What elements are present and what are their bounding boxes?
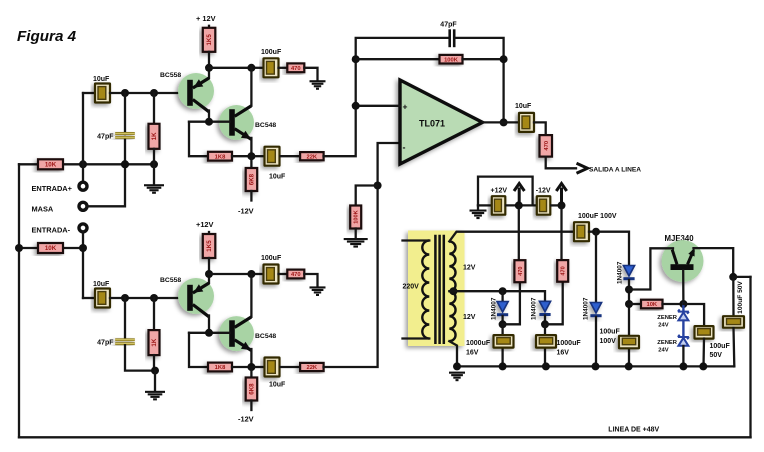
- svg-text:10K: 10K: [45, 245, 57, 252]
- svg-text:-12V: -12V: [238, 207, 254, 216]
- svg-text:MASA: MASA: [32, 204, 54, 213]
- svg-text:-: -: [403, 142, 406, 152]
- svg-text:12V: 12V: [463, 264, 476, 271]
- svg-text:+12V: +12V: [196, 220, 214, 229]
- svg-text:12V: 12V: [463, 314, 476, 321]
- svg-text:16V: 16V: [466, 350, 479, 357]
- svg-text:ZENER: ZENER: [657, 340, 677, 346]
- svg-text:1N4007: 1N4007: [582, 297, 589, 320]
- svg-text:10K: 10K: [45, 162, 57, 169]
- svg-text:TL071: TL071: [419, 119, 445, 129]
- svg-text:22K: 22K: [306, 154, 317, 160]
- svg-text:1000uF: 1000uF: [557, 340, 582, 347]
- svg-text:100uF 100V: 100uF 100V: [578, 213, 617, 220]
- svg-text:-12V: -12V: [238, 415, 254, 424]
- svg-text:100uF: 100uF: [710, 343, 731, 350]
- svg-text:10uF: 10uF: [515, 103, 532, 110]
- svg-text:47pF: 47pF: [440, 21, 457, 28]
- svg-text:Figura 4: Figura 4: [17, 28, 77, 45]
- svg-text:ENTRADA+: ENTRADA+: [32, 184, 73, 193]
- svg-text:ENTRADA-: ENTRADA-: [32, 226, 71, 235]
- svg-text:100V: 100V: [600, 338, 617, 345]
- svg-text:1N4007: 1N4007: [490, 297, 497, 320]
- svg-text:1N4007: 1N4007: [616, 261, 623, 284]
- svg-text:16V: 16V: [557, 350, 570, 357]
- svg-text:1K8: 1K8: [215, 365, 226, 371]
- svg-text:10uF: 10uF: [93, 281, 110, 288]
- svg-text:BC548: BC548: [255, 122, 276, 129]
- svg-text:100K: 100K: [354, 210, 360, 223]
- svg-text:100K: 100K: [444, 57, 459, 63]
- svg-text:470: 470: [561, 266, 567, 275]
- svg-text:470: 470: [291, 272, 301, 278]
- svg-text:470: 470: [544, 141, 550, 151]
- svg-text:6K8: 6K8: [249, 383, 256, 395]
- svg-text:470: 470: [518, 267, 524, 276]
- svg-text:BC548: BC548: [255, 333, 276, 340]
- svg-text:24V: 24V: [658, 322, 668, 328]
- svg-text:1K5: 1K5: [206, 34, 213, 46]
- svg-text:220V: 220V: [403, 283, 420, 290]
- svg-text:47pF: 47pF: [97, 133, 114, 140]
- svg-text:BC558: BC558: [160, 277, 181, 284]
- svg-text:10uF: 10uF: [269, 174, 286, 181]
- svg-text:470: 470: [291, 66, 301, 72]
- svg-text:ZENER: ZENER: [657, 315, 677, 321]
- svg-text:LINEA DE +48V: LINEA DE +48V: [608, 426, 659, 433]
- svg-text:10uF: 10uF: [93, 76, 110, 83]
- svg-text:50V: 50V: [710, 352, 723, 359]
- svg-text:22K: 22K: [306, 365, 317, 371]
- svg-text:-12V: -12V: [536, 188, 551, 195]
- svg-text:100uF: 100uF: [261, 49, 282, 56]
- svg-text:+12V: +12V: [491, 188, 508, 195]
- svg-text:100uF: 100uF: [600, 328, 621, 335]
- svg-text:10K: 10K: [646, 302, 657, 308]
- svg-text:+ 12V: + 12V: [196, 14, 216, 23]
- svg-text:1K: 1K: [151, 338, 158, 346]
- svg-text:100uF 50V: 100uF 50V: [737, 281, 744, 314]
- svg-text:47pF: 47pF: [97, 340, 114, 347]
- svg-text:1K8: 1K8: [215, 154, 226, 160]
- svg-text:SALIDA A LINEA: SALIDA A LINEA: [589, 166, 641, 173]
- svg-text:100uF: 100uF: [261, 255, 282, 262]
- svg-text:+: +: [403, 101, 408, 111]
- svg-text:1000uF: 1000uF: [466, 340, 491, 347]
- svg-text:BC558: BC558: [160, 72, 181, 79]
- svg-text:1K5: 1K5: [206, 240, 213, 252]
- svg-text:6K8: 6K8: [249, 173, 256, 185]
- svg-text:1N4007: 1N4007: [531, 297, 538, 320]
- svg-text:1K: 1K: [151, 132, 158, 140]
- svg-text:24V: 24V: [658, 347, 668, 353]
- svg-text:10uF: 10uF: [269, 382, 286, 389]
